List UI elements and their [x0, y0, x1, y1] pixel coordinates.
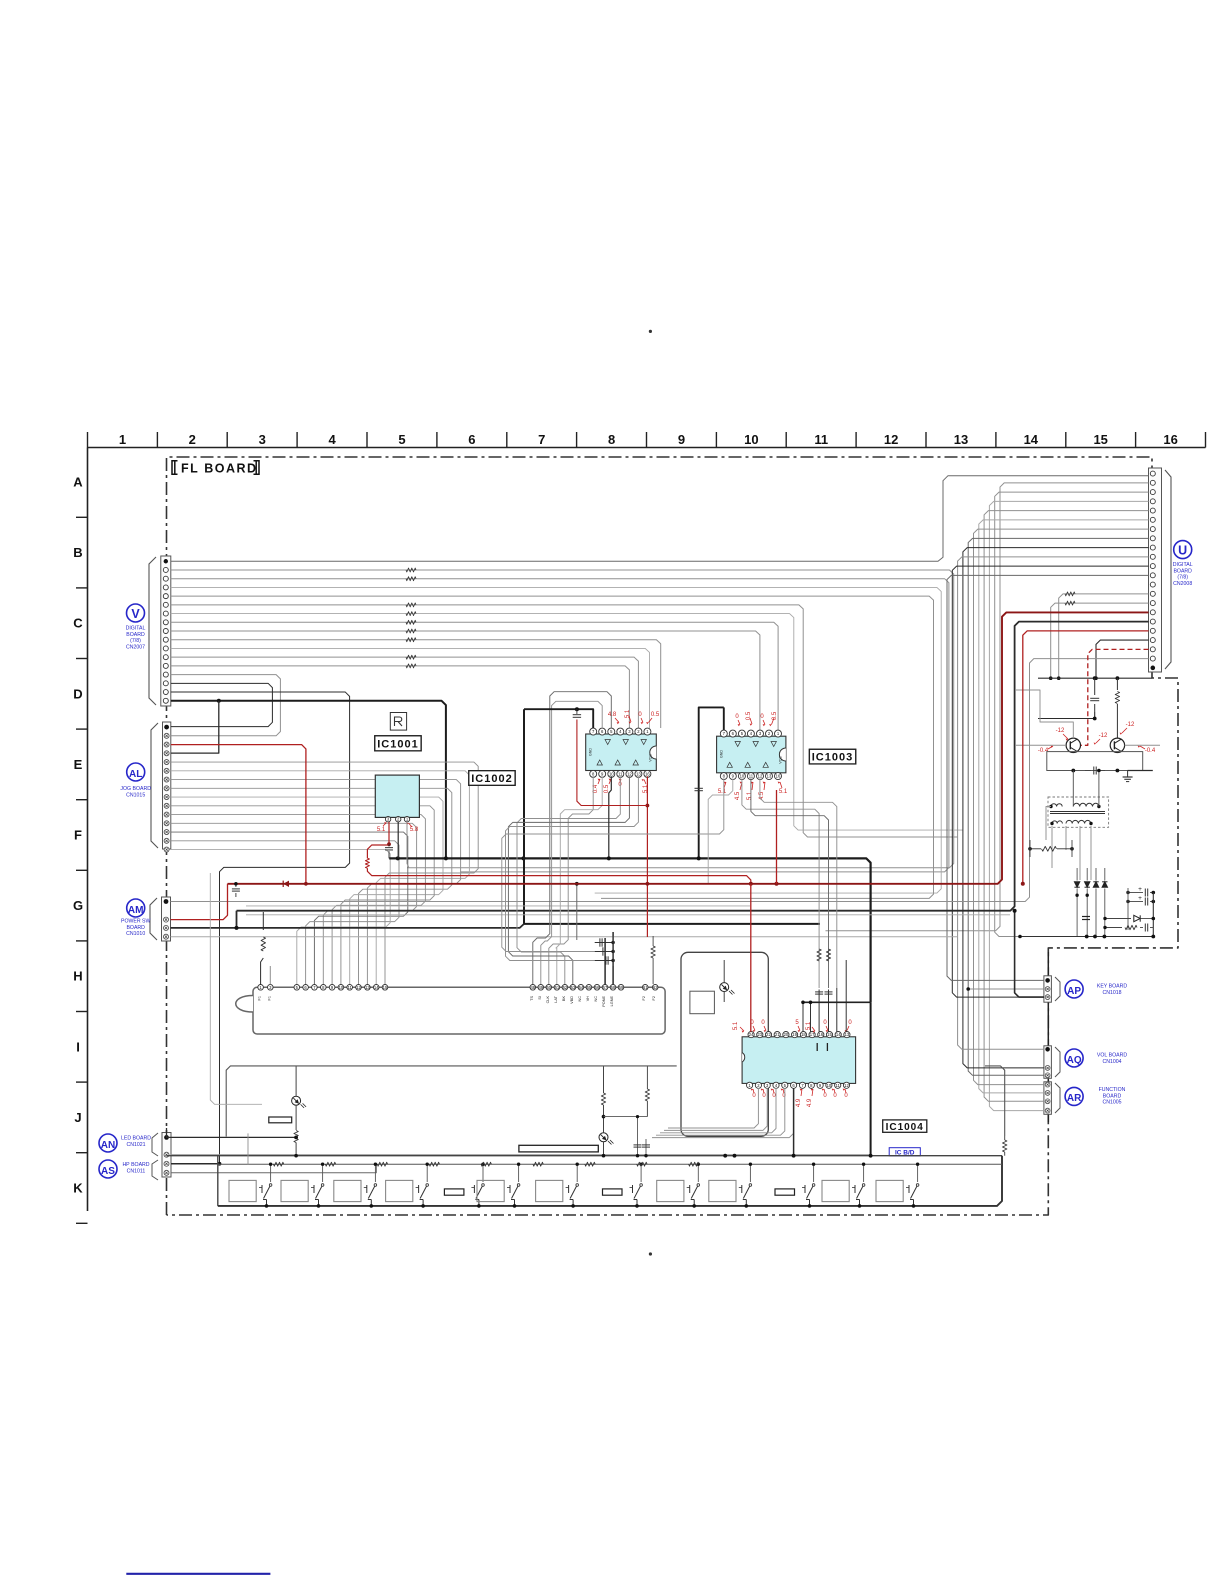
red wire down to IC1004: [750, 884, 752, 1032]
wire lower left vertical2: [210, 873, 262, 1104]
svg-text:FL BOARD: FL BOARD: [181, 462, 258, 476]
connector AQ label VOL BOARD CN1004: [1065, 1049, 1127, 1067]
svg-text:58: 58: [611, 985, 616, 990]
red wire at IC1001 cap: [483, 744, 485, 746]
long line above switches: [167, 1155, 1003, 1157]
switch bus with resistors: [218, 1163, 1002, 1165]
svg-text:U: U: [1178, 543, 1187, 557]
svg-text:F1: F1: [258, 996, 262, 1000]
thick wire IC1003 GND: [699, 707, 724, 858]
svg-text:57: 57: [603, 985, 608, 990]
junction on V wire 17: [217, 699, 221, 703]
svg-text:-12: -12: [1126, 722, 1135, 728]
svg-text:4.9: 4.9: [796, 1098, 802, 1107]
svg-text:F1: F1: [267, 996, 271, 1000]
border solid segment at connectors: [1047, 952, 1049, 1122]
svg-text:14: 14: [836, 1032, 841, 1037]
wire Q1 base: [1015, 744, 1066, 746]
FL board dash-dot border left+top: [167, 457, 1153, 1215]
svg-text:J: J: [74, 1110, 81, 1125]
svg-text:20: 20: [784, 1032, 789, 1037]
resistor cap series right: [1103, 924, 1153, 932]
svg-text:(7/8): (7/8): [1177, 575, 1188, 581]
svg-text:IC1002: IC1002: [471, 773, 512, 785]
svg-text:GND: GND: [589, 748, 593, 756]
svg-text:BOARD: BOARD: [126, 925, 145, 931]
svg-text:5.1: 5.1: [747, 791, 753, 800]
svg-text:14: 14: [1024, 432, 1039, 447]
svg-text:22: 22: [766, 1032, 771, 1037]
svg-text:4: 4: [328, 432, 336, 447]
svg-text:DIGITAL: DIGITAL: [126, 626, 146, 632]
svg-text:5.8: 5.8: [410, 827, 419, 833]
svg-text:CN2008: CN2008: [1173, 581, 1192, 587]
junctions on G bus: [396, 856, 526, 860]
svg-text:5.1: 5.1: [718, 789, 727, 795]
wire fan from connector AL to FL tube: [171, 762, 478, 984]
junction AP branch: [1013, 909, 1017, 913]
wire IC1004 pin6 down: [793, 1088, 795, 1156]
wire AS pin2: [171, 1164, 376, 1173]
svg-text:0.5: 0.5: [746, 711, 752, 720]
svg-text:+: +: [1138, 895, 1142, 902]
svg-text:56: 56: [595, 985, 600, 990]
svg-text:VH: VH: [586, 996, 590, 1002]
svg-text:6: 6: [468, 432, 475, 447]
wire IC1002 pin10 to G bus: [609, 776, 612, 858]
junctions on line above switches: [723, 1154, 872, 1158]
svg-text:8: 8: [608, 432, 615, 447]
LED D1003 left: [292, 1096, 307, 1108]
svg-text:LED BOARD: LED BOARD: [121, 1136, 151, 1142]
resistor R right top: [1116, 678, 1118, 690]
resistor right box branch: [1004, 1136, 1006, 1140]
svg-text:CN1015: CN1015: [126, 792, 145, 798]
svg-text:13: 13: [767, 774, 772, 779]
label box IC1004: [883, 1120, 927, 1132]
svg-text:TS: TS: [530, 996, 534, 1001]
red wire IC1001 pin3 branch: [367, 845, 389, 858]
IC1003 red labels bottom: [718, 782, 788, 801]
svg-text:CN1021: CN1021: [126, 1142, 145, 1148]
svg-text:BK: BK: [562, 996, 566, 1002]
connector AL label JOG BOARD CN1015: [120, 763, 151, 798]
label box IC1001: [375, 736, 421, 751]
wires U pins 13-14 with resistors: [1051, 592, 1149, 678]
wire Q2 base right: [1125, 744, 1160, 746]
IC1003 red labels top: [735, 711, 778, 726]
svg-text:-12: -12: [1056, 728, 1065, 734]
svg-text:19: 19: [792, 1032, 797, 1037]
wires transformer secondary down: [1051, 826, 1053, 868]
wire AN pin2 to switch area: [171, 1154, 871, 1156]
svg-text:10: 10: [744, 432, 758, 447]
diode bridge: [1074, 868, 1107, 937]
svg-text:0.4: 0.4: [593, 784, 599, 793]
svg-text:5.1: 5.1: [625, 709, 631, 718]
wires and caps above IC1004: [801, 960, 870, 1032]
connector AN label LED BOARD CN1021: [99, 1134, 151, 1152]
wire IC1001 pin2: [397, 822, 399, 858]
wire LED vertical: [723, 960, 725, 983]
svg-text:JOG BOARD: JOG BOARD: [120, 786, 151, 792]
junction cap top: [1093, 676, 1097, 680]
svg-text:5: 5: [398, 432, 405, 447]
wire tube pin3: [269, 966, 271, 985]
svg-text:54: 54: [579, 985, 584, 990]
svg-text:IC1003: IC1003: [812, 752, 853, 764]
svg-text:12: 12: [627, 771, 632, 776]
red wire IC1003 pin down: [776, 790, 778, 884]
svg-text:AS: AS: [101, 1166, 115, 1177]
IC1002 red labels bottom: [593, 779, 649, 794]
wires IC1002 pins to FL tube: [506, 692, 639, 985]
svg-text:CLK: CLK: [546, 996, 550, 1004]
page ruler left vertical line: [87, 448, 89, 1212]
svg-text:-12: -12: [1099, 733, 1108, 739]
wire primary taps up: [1072, 771, 1074, 807]
svg-text:CN1018: CN1018: [1102, 990, 1121, 996]
svg-text:14: 14: [374, 985, 379, 990]
wire U pin18: [1096, 640, 1149, 678]
FL board dash-dot border right+bottom: [167, 667, 1179, 1215]
svg-text:15: 15: [1093, 432, 1107, 447]
svg-text:10: 10: [827, 1083, 832, 1088]
label box IC1003: [809, 749, 855, 764]
svg-text:24: 24: [749, 1032, 754, 1037]
svg-text:18: 18: [801, 1032, 806, 1037]
svg-text:13: 13: [845, 1032, 850, 1037]
connector AR CN1005 strip: [1044, 1082, 1060, 1115]
svg-text:16: 16: [818, 1032, 823, 1037]
connector V label DIGITAL BOARD CN2007: [126, 604, 146, 650]
svg-text:11: 11: [749, 774, 754, 779]
svg-text:11: 11: [836, 1083, 841, 1088]
svg-text:E: E: [74, 757, 83, 772]
svg-text:12: 12: [356, 985, 361, 990]
svg-text:9: 9: [678, 432, 685, 447]
svg-text:0.5: 0.5: [772, 711, 778, 720]
svg-text:17: 17: [810, 1032, 815, 1037]
svg-text:5.1: 5.1: [779, 789, 788, 795]
svg-text:15: 15: [827, 1032, 832, 1037]
connector AQ CN1004 strip: [1044, 1046, 1060, 1079]
svg-text:CN2007: CN2007: [126, 644, 145, 650]
wire thick y910: [237, 622, 1149, 911]
svg-text:4.9: 4.9: [807, 1098, 813, 1107]
svg-text:CN1011: CN1011: [127, 1168, 146, 1174]
svg-text:48: 48: [530, 985, 535, 990]
wire IC1001 pin3 red stub: [388, 822, 390, 844]
wire fan from connector U CN2008: [826, 483, 1149, 1111]
svg-text:59: 59: [619, 985, 624, 990]
label box IC1003 repaint: [809, 749, 855, 764]
cap IC1001 pin3 to bus: [388, 844, 390, 846]
LED D1002: [599, 1133, 614, 1145]
svg-text:CN1004: CN1004: [1102, 1059, 1121, 1065]
svg-text:I: I: [76, 1039, 80, 1054]
connector AL CN1015 strip: [151, 722, 171, 852]
cap at IC1002 top: [576, 709, 578, 714]
wire IC1002 vcc red: [646, 776, 648, 937]
diode on red bus: [283, 881, 289, 887]
svg-text:15: 15: [383, 985, 388, 990]
svg-text:IC1001: IC1001: [377, 738, 418, 750]
connector AR label FUNCTION BOARD CN1005: [1065, 1087, 1126, 1106]
svg-text:1: 1: [119, 432, 126, 447]
svg-text:55: 55: [587, 985, 592, 990]
big rounded box right part: [985, 1066, 1005, 1136]
big rounded box below tube: [226, 1066, 677, 1137]
page ruler top tick marks: [88, 432, 1206, 448]
connector AP label KEY BOARD CN1018: [1065, 980, 1127, 998]
page ruler top numbers 1-16: [119, 432, 1178, 447]
svg-text:A: A: [73, 475, 83, 490]
rounded box around LED block: [681, 952, 768, 1136]
capacitors at FL tube VBD: [595, 936, 615, 966]
wire AM pin1: [171, 659, 1149, 902]
svg-text:5.1: 5.1: [377, 827, 386, 833]
svg-text:IC1004: IC1004: [886, 1122, 924, 1133]
symbol remote sensor R: [390, 713, 406, 731]
svg-text:4.5: 4.5: [735, 791, 741, 800]
svg-text:C: C: [73, 616, 83, 631]
svg-text:(7/8): (7/8): [130, 638, 141, 644]
svg-text:LAT: LAT: [554, 995, 558, 1002]
inner rect in LED block: [690, 991, 715, 1014]
svg-text:POWER SW: POWER SW: [121, 919, 150, 925]
title bracket left: [172, 461, 178, 474]
switch box outline: [217, 1156, 219, 1206]
svg-text:KEY BOARD: KEY BOARD: [1097, 984, 1128, 990]
wire block bottom left: [1018, 935, 1022, 939]
svg-text:VCC: VCC: [779, 756, 783, 764]
svg-text:21: 21: [775, 1032, 780, 1037]
label box IC1002 repaint: [469, 771, 515, 786]
IC1002 body: [586, 734, 657, 771]
svg-text:3: 3: [259, 432, 266, 447]
resistor at tube F2: [651, 946, 655, 958]
junctions transistor top: [1049, 676, 1053, 680]
label box IC1001 repaint: [375, 736, 421, 751]
blue reference line bottom left: [126, 1573, 270, 1575]
page ruler top horizontal line: [88, 447, 1206, 449]
caps above switch line: [634, 1115, 651, 1157]
wire x576 below red bus: [576, 884, 578, 940]
svg-text:13: 13: [954, 432, 968, 447]
svg-text:VOL BOARD: VOL BOARD: [1097, 1053, 1128, 1059]
red junctions: [749, 882, 753, 886]
wires into FL tube PONE LGNE: [604, 938, 606, 985]
svg-text:16: 16: [1163, 432, 1177, 447]
red wire vcc to cap: [577, 720, 648, 806]
FL display tube body: [236, 987, 665, 1034]
svg-text:AM: AM: [128, 905, 144, 916]
IC1003 body: [717, 736, 786, 773]
svg-text:10: 10: [339, 985, 344, 990]
vertical right bus: [1152, 893, 1154, 937]
long thin rect above switches: [519, 1145, 598, 1152]
LED D1001: [720, 983, 735, 995]
svg-text:23: 23: [757, 1032, 762, 1037]
connector U CN2008 strip: [1149, 468, 1172, 672]
svg-text:5.1: 5.1: [806, 1021, 812, 1030]
polarized cap marks: [1082, 916, 1090, 918]
svg-text:12: 12: [758, 774, 763, 779]
IC1004 body: [742, 1037, 856, 1084]
thick wire IC1002 GND top: [524, 709, 593, 728]
connector AN AS strip: [152, 1133, 171, 1181]
wire Q1 collector: [1015, 690, 1073, 738]
svg-text:H: H: [73, 969, 82, 984]
connector AM CN1010 strip: [150, 897, 171, 941]
FL tube pin labels: [258, 995, 657, 1006]
thick wire IC1002 top: [523, 709, 525, 924]
wires IC1004 bottom pins left: [652, 1088, 794, 1138]
svg-text:VCC: VCC: [649, 754, 653, 762]
svg-text:BOARD: BOARD: [1173, 568, 1192, 574]
svg-text:+: +: [1138, 886, 1142, 893]
svg-text:CN1010: CN1010: [126, 931, 145, 937]
red wire U pin17: [1023, 631, 1149, 884]
thick wire right of IC1004: [870, 1002, 872, 1155]
wire emitter to right border: [1128, 770, 1153, 772]
title bracket right: [254, 461, 260, 474]
wire V17 to AL pin4: [171, 701, 219, 753]
svg-text:5.1: 5.1: [733, 1021, 739, 1030]
svg-text:AP: AP: [1067, 986, 1081, 997]
IC1004 red labels bottom: [751, 1089, 849, 1108]
red wire AL pin3 long: [171, 745, 306, 884]
red bus horizontal: [228, 612, 1149, 883]
registration dot top: [649, 330, 652, 333]
svg-text:5.1: 5.1: [643, 784, 649, 793]
svg-text:PONE: PONE: [602, 996, 606, 1007]
junction y910: [235, 926, 239, 930]
svg-text:VBD: VBD: [570, 996, 574, 1004]
wire tube pin1 resistor: [261, 958, 264, 985]
connector AS label HP BOARD CN1011: [99, 1160, 150, 1178]
IC1003 pin circles: [720, 730, 781, 780]
svg-text:LGNE: LGNE: [610, 996, 614, 1007]
svg-text:F2: F2: [652, 996, 656, 1000]
IC1001 body: [375, 775, 419, 817]
svg-text:2: 2: [189, 432, 196, 447]
connector U label DIGITAL BOARD CN2008: [1173, 541, 1193, 587]
svg-text:16: 16: [645, 771, 650, 776]
red wire AM pin2: [171, 884, 228, 920]
svg-text:7: 7: [538, 432, 545, 447]
svg-text:-0.4: -0.4: [1145, 748, 1156, 754]
wire AN pin1 to LED: [167, 1128, 297, 1137]
svg-text:0.5: 0.5: [651, 712, 660, 718]
wire bundle from connector V: [171, 476, 1149, 1164]
wire y906 gray: [246, 905, 750, 907]
connector AP CN1018 strip: [1044, 976, 1060, 1002]
svg-text:16: 16: [776, 774, 781, 779]
svg-text:NC: NC: [578, 996, 582, 1002]
svg-text:SI: SI: [538, 996, 542, 1000]
svg-text:FUNCTION: FUNCTION: [1099, 1087, 1126, 1093]
registration dot bottom: [649, 1252, 652, 1255]
wire primary left down: [1046, 807, 1051, 841]
wire AS pin1 thick: [171, 1163, 220, 1165]
label box IC1002: [469, 771, 515, 786]
wire AM pin3 thick: [171, 924, 525, 928]
svg-text:HP BOARD: HP BOARD: [122, 1162, 149, 1168]
svg-text:10: 10: [609, 771, 614, 776]
svg-text:11: 11: [814, 432, 828, 447]
thick bus G row: [389, 858, 870, 1002]
transformer T1001: [1048, 797, 1109, 827]
resistor array on V bus wires: [406, 568, 416, 668]
svg-text:D: D: [73, 686, 82, 701]
bottom bus transistor block: [1020, 936, 1153, 938]
transistor Q1002: [1110, 738, 1124, 752]
junction emitter: [1071, 769, 1075, 773]
wire y914 gray: [246, 914, 1010, 916]
wire resistor right of LED: [646, 1066, 648, 1089]
thick wire to bottom bus: [524, 923, 820, 925]
svg-text:DIGITAL: DIGITAL: [1173, 562, 1193, 568]
svg-text:52: 52: [563, 985, 568, 990]
resistors on IC1004 feed wires: [817, 949, 821, 961]
cap near AM: [235, 884, 237, 887]
svg-text:12: 12: [844, 1083, 849, 1088]
switch cells row: [229, 1163, 919, 1208]
svg-text:50: 50: [546, 985, 551, 990]
svg-text:51: 51: [555, 985, 560, 990]
IC1004 red labels top: [733, 1020, 852, 1033]
connector AM label POWER SW BOARD CN1010: [121, 899, 150, 937]
svg-text:53: 53: [571, 985, 576, 990]
wire res stub: [1029, 840, 1031, 857]
red dashed wire U pin20: [1081, 649, 1149, 745]
IC1002 pin circles: [590, 728, 651, 777]
svg-text:49: 49: [538, 985, 543, 990]
transistor red voltage labels: [1038, 722, 1156, 754]
svg-text:62: 62: [653, 985, 658, 990]
IC1002 red labels top: [608, 709, 660, 724]
svg-text:11: 11: [618, 771, 623, 776]
wires IC1003 bottom pins: [502, 778, 837, 988]
svg-text:13: 13: [365, 985, 370, 990]
caps right of diodes: [1126, 886, 1155, 906]
ground symbol: [1127, 771, 1129, 778]
emitter box: [1047, 752, 1143, 771]
svg-text:BOARD: BOARD: [126, 632, 145, 638]
FL tube pin circles: [258, 985, 658, 991]
diode D right: [1103, 915, 1155, 921]
thick wire AP pin3 branch: [1015, 911, 1044, 997]
IC1004 pin circles: [747, 1032, 851, 1089]
svg-text:AQ: AQ: [1067, 1055, 1082, 1066]
page ruler left letters A-K: [73, 475, 83, 1196]
wire LED D1003 vertical: [295, 1066, 297, 1096]
svg-text:AL: AL: [129, 769, 142, 780]
page ruler left tick marks: [76, 517, 88, 1223]
svg-text:BOARD: BOARD: [1103, 1093, 1122, 1099]
wire LED D1002 chain: [603, 1066, 605, 1093]
svg-text:61: 61: [643, 985, 648, 990]
svg-text:CN1005: CN1005: [1102, 1100, 1121, 1106]
wire top of transistor block: [1038, 677, 1152, 679]
svg-text:GND: GND: [720, 750, 724, 758]
wire AM pin4: [171, 936, 958, 938]
svg-text:G: G: [73, 898, 83, 913]
red junction U17: [1021, 882, 1025, 886]
svg-text:AN: AN: [101, 1140, 115, 1151]
